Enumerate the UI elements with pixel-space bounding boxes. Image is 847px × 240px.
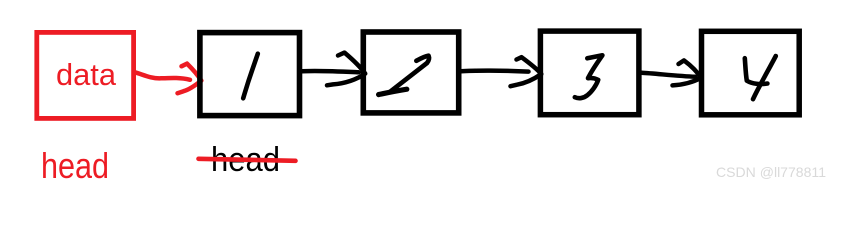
svg-text:head: head: [41, 145, 109, 186]
node box 3: [540, 31, 639, 115]
label head (red): [41, 145, 109, 186]
link arrow 1->2: [302, 53, 365, 86]
value 4: [745, 56, 776, 99]
value 2: [379, 56, 429, 95]
label data: [56, 57, 117, 92]
svg-text:CSDN @ll778811: CSDN @ll778811: [716, 164, 826, 180]
head pointer box (red): [37, 32, 134, 118]
node box 2: [363, 32, 458, 113]
value 3: [575, 55, 603, 98]
red arrow head->node1: [135, 64, 201, 94]
red strikethrough line: [199, 159, 296, 161]
label head (black, struck out): [211, 141, 280, 179]
watermark CSDN: [716, 164, 826, 180]
value 1: [243, 54, 258, 99]
node box 1: [200, 33, 300, 116]
link arrow 3->4: [642, 60, 702, 85]
node box 4: [702, 31, 800, 115]
link arrow 2->3: [461, 57, 541, 86]
svg-text:data: data: [56, 57, 117, 92]
